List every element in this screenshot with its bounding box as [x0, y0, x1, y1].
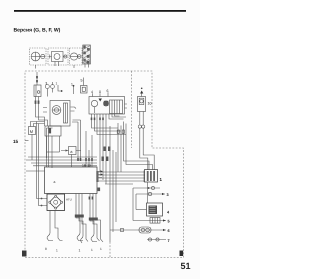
internal dashed divider bottom	[109, 242, 111, 257]
svg-text:M: M	[30, 129, 33, 134]
svg-text:6: 6	[107, 89, 109, 93]
elbow wires from rear lamp side	[140, 148, 154, 170]
svg-text:1: 1	[56, 249, 58, 253]
regulator rectifier with X	[47, 194, 65, 211]
wire stubs from lamps to border	[36, 62, 89, 69]
brake switch front	[51, 85, 55, 89]
svg-text:АТU: АТU	[66, 198, 72, 202]
svg-text:7: 7	[168, 239, 170, 243]
horizontal harness into main box	[26, 157, 97, 166]
box right stubs	[97, 172, 102, 178]
connector pins	[138, 125, 141, 128]
body outline dashed border	[25, 71, 184, 258]
left border tick	[25, 140, 29, 142]
svg-text:10: 10	[148, 102, 152, 106]
bottom staircase wires group A	[47, 211, 53, 241]
connector ticks on bundle	[117, 130, 119, 133]
pulse node	[69, 147, 77, 155]
svg-text:1: 1	[56, 82, 58, 86]
main connector 1	[145, 170, 158, 183]
svg-text:1: 1	[79, 249, 81, 253]
turn signal lamp box (dashed) right	[70, 48, 83, 65]
ignition unit	[50, 101, 70, 127]
flasher relay	[36, 72, 38, 85]
bullet connectors y=239.5	[147, 239, 166, 241]
staircase group C	[89, 218, 98, 221]
wire stub	[58, 85, 61, 91]
battery	[147, 203, 163, 216]
svg-text:51: 51	[181, 261, 191, 271]
horizontal bundle to connector	[97, 172, 145, 181]
svg-text:4: 4	[91, 90, 93, 94]
svg-text:a: a	[54, 180, 56, 184]
descending bundle	[110, 126, 116, 242]
fuse	[133, 220, 166, 222]
svg-text:6: 6	[168, 229, 170, 233]
turn signal lamp box (dashed) left	[30, 48, 47, 65]
wire with inline connector y=188	[133, 187, 160, 189]
wire y=194 with bullet and label 3	[136, 193, 165, 195]
svg-text:1: 1	[100, 247, 102, 251]
svg-text:Версия (G, B, F, W): Версия (G, B, F, W)	[14, 28, 61, 34]
svg-text:15: 15	[13, 139, 19, 144]
inline fuse 2	[110, 229, 166, 231]
svg-text:8: 8	[45, 247, 47, 251]
left wires + small box M	[37, 122, 48, 206]
headlamp unit	[52, 52, 64, 62]
staircase group B	[75, 215, 84, 218]
harness verticals below switch	[92, 114, 127, 135]
lamp L2	[70, 53, 77, 60]
internal dashed divider x=131	[131, 71, 133, 148]
main junction box	[45, 167, 98, 194]
engine block	[45, 126, 61, 136]
svg-text:1B 19: 1B 19	[82, 164, 91, 168]
ignition switch (hatched)	[83, 45, 91, 64]
svg-text:5: 5	[168, 220, 170, 224]
bottom-left terminal box	[22, 251, 27, 257]
handlebar switch cluster labels 4 2 6	[91, 89, 109, 94]
svg-text:3: 3	[167, 193, 169, 197]
handlebar switch cluster	[89, 97, 125, 115]
svg-text:1: 1	[91, 248, 93, 252]
svg-text:5: 5	[81, 79, 83, 83]
headlamp box (dashed)	[48, 48, 68, 65]
lamp L1	[31, 52, 40, 61]
top rule	[14, 10, 186, 12]
rear combination lamp	[140, 91, 143, 94]
pilot lamp	[41, 54, 45, 58]
pilot lamp 2	[78, 55, 82, 59]
bottom-right label	[180, 251, 184, 257]
svg-text:0: 0	[99, 90, 101, 94]
